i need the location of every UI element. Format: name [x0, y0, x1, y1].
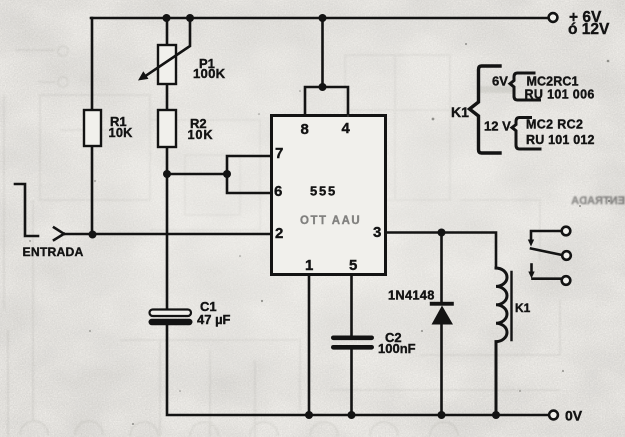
- svg-text:5: 5: [349, 257, 357, 274]
- svg-text:10K: 10K: [109, 125, 134, 140]
- svg-text:OTT AAU: OTT AAU: [300, 215, 361, 227]
- svg-text:3: 3: [373, 224, 381, 241]
- svg-text:K1: K1: [515, 301, 531, 315]
- svg-text:ó 12V: ó 12V: [568, 21, 610, 38]
- svg-text:6V: 6V: [492, 74, 508, 89]
- svg-text:100K: 100K: [193, 66, 226, 81]
- svg-text:8: 8: [301, 121, 309, 138]
- svg-text:10K: 10K: [188, 127, 214, 142]
- svg-text:4: 4: [342, 120, 351, 137]
- svg-text:2: 2: [275, 225, 283, 242]
- svg-text:1N4148: 1N4148: [388, 288, 435, 303]
- svg-text:ENTRADA: ENTRADA: [23, 245, 84, 259]
- svg-text:12 V: 12 V: [484, 119, 511, 134]
- svg-text:1: 1: [305, 257, 313, 274]
- svg-text:7: 7: [275, 145, 283, 162]
- svg-text:MC2RC1: MC2RC1: [527, 75, 579, 89]
- svg-text:RU 101 006: RU 101 006: [525, 88, 595, 102]
- svg-text:0V: 0V: [565, 408, 583, 424]
- svg-text:6: 6: [274, 183, 282, 200]
- svg-text:47 µF: 47 µF: [197, 312, 231, 327]
- svg-text:MC2 RC2: MC2 RC2: [526, 118, 583, 132]
- svg-text:RU 101 012: RU 101 012: [526, 133, 595, 147]
- svg-text:555: 555: [310, 184, 337, 199]
- svg-text:100nF: 100nF: [378, 341, 416, 356]
- svg-text:K1: K1: [451, 104, 469, 120]
